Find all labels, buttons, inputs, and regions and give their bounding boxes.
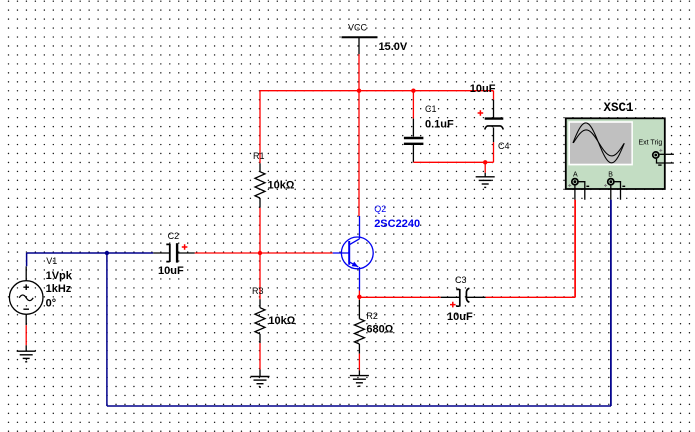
scope screen waveform trace 2 bbox=[573, 130, 624, 156]
minus mark (B) bbox=[622, 185, 625, 187]
minus mark (A) bbox=[586, 185, 589, 187]
scope screen waveform trace 1 bbox=[573, 123, 624, 163]
pin marker plus (Ext Trig) bbox=[659, 149, 662, 152]
pin Ext Trig minus bbox=[657, 159, 674, 163]
junction C1 branch node bbox=[411, 89, 415, 93]
wire rail to C1 bbox=[412, 91, 414, 119]
capacitor C4 bbox=[485, 100, 504, 143]
junction base node bbox=[258, 251, 262, 255]
svg-text:R3: R3 bbox=[252, 286, 264, 296]
svg-text:VCC: VCC bbox=[348, 23, 368, 33]
wire V1 to ground bbox=[25, 325, 27, 345]
capacitor C3 bbox=[441, 288, 486, 306]
wire scope B lead bbox=[610, 200, 612, 406]
pin A plus bbox=[574, 186, 576, 200]
svg-text:10uF: 10uF bbox=[470, 83, 496, 95]
svg-text:Ext Trig: Ext Trig bbox=[639, 140, 663, 147]
wire scope A lead bbox=[574, 200, 576, 297]
wire R1 to base node bbox=[259, 208, 261, 253]
pin B minus bbox=[614, 182, 620, 200]
wire base node to R3 bbox=[259, 253, 261, 299]
transistor Q2 bbox=[333, 216, 374, 291]
polarity plus mark (C3) bbox=[450, 302, 456, 308]
wire base bbox=[195, 252, 333, 254]
capacitor C2 bbox=[153, 243, 194, 262]
svg-text:R1: R1 bbox=[253, 151, 265, 161]
svg-text:10kΩ: 10kΩ bbox=[268, 179, 295, 191]
svg-text:10uF: 10uF bbox=[158, 265, 184, 277]
resistor R3 bbox=[255, 299, 265, 343]
wire R2 to ground bbox=[358, 354, 360, 371]
wire C4 to ground link bbox=[493, 142, 495, 162]
wire V1 to input net bbox=[27, 253, 154, 266]
ground (R3) bbox=[251, 370, 270, 388]
wire VCC to top rail bbox=[358, 54, 360, 91]
oscilloscope XSC1 bbox=[566, 118, 665, 189]
svg-text:0.1uF: 0.1uF bbox=[425, 119, 454, 131]
junction emitter node bbox=[357, 295, 361, 299]
svg-text:10kΩ: 10kΩ bbox=[268, 315, 295, 327]
resistor R2 bbox=[354, 300, 364, 354]
source V1 bbox=[9, 266, 43, 325]
svg-text:1Vpk: 1Vpk bbox=[46, 270, 73, 282]
svg-text:15.0V: 15.0V bbox=[379, 41, 408, 53]
pin A minus bbox=[579, 182, 585, 200]
wire rail to R1 bbox=[259, 91, 261, 164]
polarity plus mark (C2) bbox=[182, 244, 188, 250]
svg-text:C3: C3 bbox=[455, 275, 467, 285]
junction ground tap node bbox=[483, 160, 487, 164]
junction input node bbox=[105, 251, 109, 255]
svg-text:XSC1: XSC1 bbox=[604, 101, 634, 115]
wire emitter node to C3 bbox=[359, 296, 440, 298]
wire emitter to node bbox=[358, 291, 360, 297]
junction VCC/collector node bbox=[357, 89, 361, 93]
wire rail to C4 bbox=[493, 91, 495, 100]
wire rail to collector bbox=[358, 91, 360, 216]
svg-text:680Ω: 680Ω bbox=[366, 324, 393, 336]
svg-text:C4: C4 bbox=[498, 141, 510, 151]
wire R3 to ground bbox=[259, 343, 261, 369]
svg-text:V1: V1 bbox=[46, 256, 57, 266]
ground (R2) bbox=[350, 370, 369, 386]
polarity plus mark (C4) bbox=[478, 110, 484, 116]
resistor R1 bbox=[255, 163, 265, 208]
wire bottom return rail bbox=[107, 200, 611, 406]
wire top rail bbox=[260, 90, 494, 92]
power VCC bbox=[342, 23, 378, 55]
ground (V1) bbox=[17, 345, 36, 362]
pin marker plus (A) bbox=[568, 184, 571, 187]
pin B plus bbox=[610, 186, 612, 200]
svg-text:C1: C1 bbox=[425, 104, 437, 114]
ground (C1/C4 net) bbox=[476, 173, 495, 188]
svg-text:A: A bbox=[573, 171, 578, 178]
terminal A bbox=[572, 179, 578, 185]
minus mark (Ext Trig) bbox=[658, 164, 661, 166]
terminal B bbox=[608, 179, 614, 185]
svg-text:2SC2240: 2SC2240 bbox=[374, 218, 420, 230]
capacitor C1 bbox=[404, 119, 424, 163]
svg-text:C2: C2 bbox=[168, 231, 180, 241]
wire ground tap bbox=[484, 162, 486, 173]
terminal Ext Trig bbox=[653, 152, 659, 158]
wire emitter node to R2 bbox=[358, 297, 360, 300]
pin marker plus (B) bbox=[604, 184, 607, 187]
svg-text:Q2: Q2 bbox=[374, 204, 386, 214]
svg-text:R2: R2 bbox=[366, 311, 378, 321]
svg-text:1kHz: 1kHz bbox=[46, 283, 72, 295]
wire C3 to scope channel A bbox=[486, 200, 576, 297]
svg-text:B: B bbox=[608, 171, 613, 178]
pin Ext Trig plus bbox=[660, 153, 674, 155]
wire C1-C4 bottom link bbox=[413, 161, 493, 163]
svg-text:10uF: 10uF bbox=[447, 311, 473, 323]
svg-text:0°: 0° bbox=[46, 297, 57, 309]
